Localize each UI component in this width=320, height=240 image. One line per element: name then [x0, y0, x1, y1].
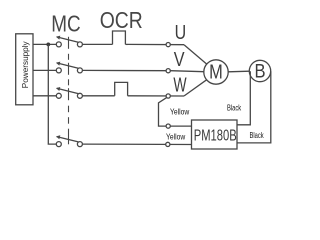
svg-text:W: W: [173, 73, 187, 96]
svg-text:U: U: [175, 20, 187, 43]
brake B circle: [249, 60, 270, 81]
power supply box: [16, 34, 33, 105]
meter PM180B box: [192, 120, 238, 149]
contactor MC pole 4 contacts: [56, 142, 61, 147]
terminal yellow upper circle: [166, 124, 170, 128]
wire W to motor: [184, 79, 208, 96]
wire T phase from box to switch: [33, 95, 56, 97]
wire S phase switch to terminal V: [82, 69, 170, 71]
terminal U circle: [166, 43, 170, 47]
wire vertical feed to control branch: [48, 44, 56, 144]
wire T phase OCR to terminal W: [128, 95, 184, 97]
svg-text:OCR: OCR: [100, 9, 143, 34]
svg-text:MC: MC: [51, 12, 80, 37]
wire T phase switch to OCR: [82, 95, 114, 97]
wire yellow tap from W down to meter: [159, 98, 192, 126]
contactor MC pole 2 contacts: [56, 68, 61, 73]
contactor MC pole 2 blade: [57, 63, 79, 68]
terminal yellow lower circle: [166, 142, 170, 146]
contactor MC pole 3 blade: [57, 88, 79, 93]
terminal V circle: [166, 69, 170, 73]
svg-text:PM180B: PM180B: [194, 125, 237, 144]
wire R phase switch to OCR: [82, 43, 112, 45]
motor M circle: [204, 60, 228, 84]
svg-text:Powersupply: Powersupply: [21, 40, 30, 88]
OCR heater element R phase: [113, 31, 126, 44]
wire R phase from box to switch: [33, 43, 56, 45]
svg-text:Yellow: Yellow: [166, 132, 186, 142]
svg-text:Black: Black: [227, 104, 242, 113]
wire black upper from motor node to meter: [237, 71, 250, 125]
contactor MC pole 1 contacts: [56, 42, 61, 47]
wire R phase OCR to terminal U: [125, 43, 184, 45]
contactor MC pole 3 contacts: [56, 93, 61, 98]
svg-text:V: V: [174, 48, 186, 70]
wire motor to B: [228, 70, 249, 73]
wire V to motor: [170, 71, 204, 72]
svg-text:M: M: [209, 60, 223, 83]
wire U to motor: [184, 45, 207, 64]
wire S phase from box to switch: [33, 69, 56, 71]
contactor MC pole 4 blade: [57, 137, 79, 142]
terminal W circle: [166, 94, 170, 98]
svg-text:Yellow: Yellow: [170, 107, 190, 117]
node junction dot on R phase: [46, 43, 50, 47]
OCR heater element T phase: [115, 82, 128, 95]
mechanical linkage dashed line: [68, 37, 70, 145]
svg-text:B: B: [254, 60, 265, 82]
wire control branch to meter (yellow lower): [82, 143, 191, 145]
wire black lower from B to meter: [237, 71, 271, 143]
contactor MC pole 1 blade: [57, 37, 79, 42]
svg-text:Black: Black: [250, 131, 265, 140]
